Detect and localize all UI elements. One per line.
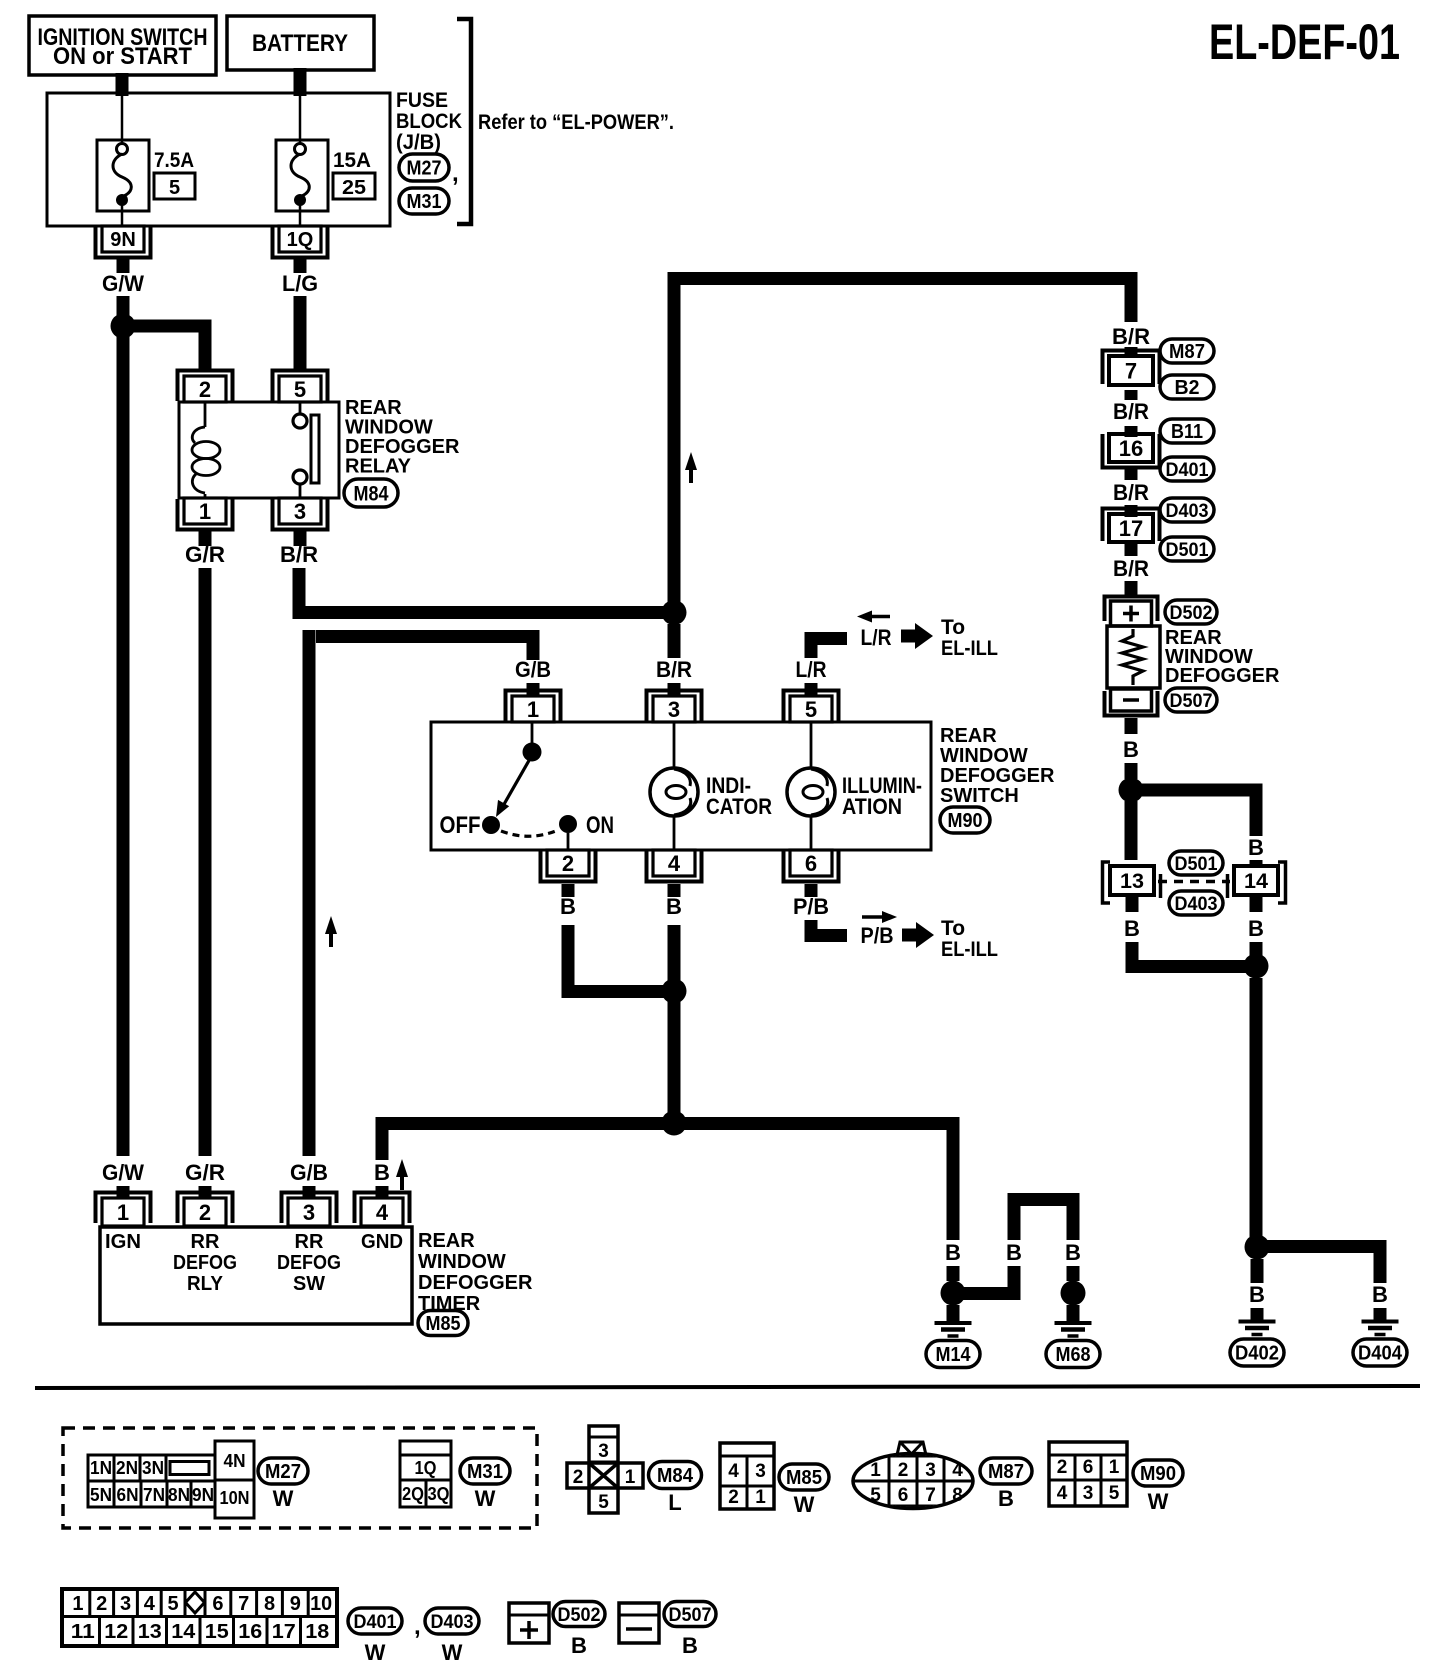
svg-text:10N: 10N (220, 1488, 250, 1508)
svg-text:6: 6 (212, 1593, 223, 1615)
svg-text:B: B (666, 894, 682, 919)
svg-text:D403: D403 (1166, 501, 1209, 522)
svg-text:DEFOG: DEFOG (173, 1252, 237, 1274)
svg-text:M87: M87 (1169, 341, 1205, 363)
svg-text:4N: 4N (224, 1451, 246, 1471)
svg-text:1: 1 (755, 1487, 766, 1508)
svg-text:B: B (560, 894, 576, 919)
svg-text:M27: M27 (265, 1461, 301, 1483)
svg-text:5N: 5N (90, 1485, 112, 1505)
svg-text:WINDOW: WINDOW (418, 1251, 506, 1273)
svg-text:BATTERY: BATTERY (252, 30, 348, 57)
svg-text:SW: SW (293, 1273, 325, 1295)
svg-text:M27: M27 (407, 158, 442, 180)
svg-text:1: 1 (625, 1467, 636, 1488)
svg-text:To: To (941, 616, 965, 639)
svg-text:ON or START: ON or START (53, 43, 192, 70)
svg-text:W: W (475, 1486, 496, 1511)
svg-text:M87: M87 (988, 1461, 1024, 1483)
svg-text:5: 5 (598, 1492, 609, 1513)
svg-text:EL-ILL: EL-ILL (941, 637, 998, 660)
svg-text:W: W (1148, 1489, 1169, 1514)
svg-text:4: 4 (952, 1460, 963, 1481)
svg-text:B2: B2 (1175, 377, 1200, 399)
svg-text:15: 15 (205, 1621, 229, 1643)
svg-text:FUSE: FUSE (396, 89, 448, 112)
svg-text:(J/B): (J/B) (396, 131, 441, 154)
svg-text:L/G: L/G (282, 271, 318, 296)
svg-text:M14: M14 (936, 1344, 972, 1366)
svg-text:G/B: G/B (290, 1160, 328, 1185)
svg-text:WINDOW: WINDOW (940, 745, 1028, 767)
svg-text:2: 2 (728, 1487, 739, 1508)
svg-text:11: 11 (71, 1621, 95, 1643)
svg-text:ATION: ATION (842, 794, 902, 819)
svg-text:4: 4 (668, 851, 681, 876)
svg-text:SWITCH: SWITCH (940, 785, 1019, 807)
svg-text:1: 1 (870, 1460, 881, 1481)
svg-text:M85: M85 (426, 1313, 461, 1335)
svg-text:3: 3 (668, 697, 680, 722)
svg-text:16: 16 (1119, 436, 1143, 461)
svg-text:25: 25 (342, 177, 366, 199)
svg-text:To: To (941, 917, 965, 940)
svg-text:5: 5 (169, 177, 180, 199)
svg-text:1: 1 (1109, 1457, 1120, 1478)
svg-text:5: 5 (294, 377, 306, 402)
svg-text:D402: D402 (1235, 1343, 1279, 1365)
svg-text:RR: RR (191, 1231, 220, 1253)
svg-text:3: 3 (294, 499, 306, 524)
svg-text:B: B (1124, 916, 1140, 941)
svg-text:4: 4 (1057, 1483, 1068, 1504)
svg-text:1: 1 (72, 1593, 83, 1615)
svg-text:3: 3 (598, 1441, 609, 1462)
svg-text:RELAY: RELAY (345, 456, 412, 478)
svg-text:1Q: 1Q (415, 1458, 437, 1478)
svg-text:ON: ON (586, 812, 614, 839)
svg-text:B: B (1065, 1240, 1081, 1265)
svg-text:2: 2 (562, 851, 574, 876)
svg-text:G/R: G/R (185, 1160, 225, 1185)
svg-text:3N: 3N (142, 1458, 164, 1478)
svg-text:9N: 9N (192, 1485, 214, 1505)
svg-text:B: B (998, 1486, 1014, 1511)
svg-text:DEFOGGER: DEFOGGER (418, 1272, 533, 1294)
svg-text:2N: 2N (116, 1458, 138, 1478)
svg-text:,: , (452, 160, 459, 187)
svg-text:Refer to “EL-POWER”.: Refer to “EL-POWER”. (478, 111, 674, 134)
svg-text:W: W (794, 1492, 815, 1517)
svg-text:G/W: G/W (102, 271, 144, 296)
svg-text:12: 12 (104, 1621, 128, 1643)
svg-text:17: 17 (1119, 516, 1143, 541)
svg-text:B: B (945, 1240, 961, 1265)
svg-text:16: 16 (238, 1621, 262, 1643)
svg-text:M90: M90 (948, 810, 983, 832)
svg-text:D502: D502 (558, 1605, 601, 1626)
svg-text:M68: M68 (1056, 1344, 1091, 1366)
svg-text:G/B: G/B (515, 657, 551, 682)
svg-text:G/R: G/R (185, 542, 225, 567)
svg-text:G/W: G/W (102, 1160, 144, 1185)
svg-text:10: 10 (310, 1593, 332, 1615)
svg-text:9: 9 (290, 1593, 301, 1615)
svg-text:14: 14 (1244, 870, 1268, 893)
svg-text:8N: 8N (168, 1485, 190, 1505)
svg-text:D502: D502 (1170, 603, 1213, 624)
svg-text:L/R: L/R (861, 625, 892, 650)
svg-text:4: 4 (144, 1593, 156, 1615)
svg-text:3: 3 (1083, 1483, 1094, 1504)
svg-text:6: 6 (1083, 1457, 1094, 1478)
svg-text:B11: B11 (1171, 421, 1203, 443)
svg-text:M84: M84 (354, 483, 389, 506)
svg-text:7.5A: 7.5A (154, 149, 194, 172)
svg-text:6: 6 (805, 851, 817, 876)
svg-text:7: 7 (238, 1593, 249, 1615)
svg-text:L: L (668, 1490, 681, 1515)
svg-text:D501: D501 (1166, 540, 1209, 561)
svg-text:5: 5 (1109, 1483, 1120, 1504)
svg-text:W: W (442, 1640, 463, 1665)
svg-text:IGN: IGN (105, 1231, 141, 1253)
svg-text:DEFOGGER: DEFOGGER (940, 765, 1055, 787)
svg-text:M90: M90 (1140, 1463, 1176, 1485)
svg-text:13: 13 (138, 1621, 162, 1643)
svg-text:D507: D507 (669, 1605, 712, 1626)
svg-text:1: 1 (527, 697, 539, 722)
svg-text:2: 2 (573, 1467, 584, 1488)
svg-text:18: 18 (305, 1621, 329, 1643)
svg-text:3: 3 (303, 1200, 315, 1225)
svg-text:8: 8 (952, 1485, 963, 1506)
svg-text:3: 3 (120, 1593, 131, 1615)
svg-text:CATOR: CATOR (706, 794, 772, 819)
svg-text:B/R: B/R (1113, 399, 1149, 424)
svg-text:P/B: P/B (793, 894, 829, 919)
svg-text:D403: D403 (1175, 894, 1218, 915)
svg-text:B: B (1123, 737, 1139, 762)
svg-text:5: 5 (805, 697, 817, 722)
svg-text:5: 5 (168, 1593, 179, 1615)
svg-text:BLOCK: BLOCK (396, 110, 462, 133)
svg-text:EL-DEF-01: EL-DEF-01 (1209, 14, 1400, 70)
svg-text:B: B (1006, 1240, 1022, 1265)
svg-text:3: 3 (925, 1460, 936, 1481)
svg-text:DEFOGGER: DEFOGGER (1165, 665, 1280, 687)
svg-text:D401: D401 (1166, 460, 1209, 481)
svg-text:B/R: B/R (1113, 556, 1149, 581)
svg-text:M84: M84 (657, 1465, 694, 1487)
svg-text:3Q: 3Q (428, 1484, 450, 1504)
svg-text:14: 14 (171, 1621, 196, 1643)
svg-text:D403: D403 (431, 1612, 474, 1633)
svg-text:REAR: REAR (940, 725, 997, 747)
svg-text:D501: D501 (1175, 854, 1218, 875)
svg-text:B/R: B/R (656, 657, 692, 682)
svg-text:P/B: P/B (861, 923, 894, 948)
svg-text:1Q: 1Q (287, 229, 314, 251)
svg-text:13: 13 (1120, 870, 1144, 893)
svg-text:RLY: RLY (187, 1273, 224, 1295)
svg-text:M31: M31 (467, 1461, 503, 1483)
svg-text:D404: D404 (1358, 1343, 1403, 1365)
svg-text:D401: D401 (354, 1612, 397, 1633)
svg-text:17: 17 (272, 1621, 296, 1643)
svg-text:W: W (365, 1640, 386, 1665)
svg-text:DEFOG: DEFOG (277, 1252, 341, 1274)
svg-text:3: 3 (755, 1461, 766, 1482)
svg-text:L/R: L/R (796, 657, 827, 682)
svg-text:15A: 15A (333, 149, 371, 172)
svg-text:2: 2 (1057, 1457, 1068, 1478)
svg-text:RR: RR (295, 1231, 324, 1253)
svg-text:4: 4 (728, 1461, 739, 1482)
svg-text:2Q: 2Q (402, 1484, 424, 1504)
svg-text:7: 7 (925, 1485, 936, 1506)
svg-text:B: B (374, 1160, 390, 1185)
svg-text:2: 2 (898, 1460, 909, 1481)
svg-text:,: , (414, 1613, 421, 1640)
svg-text:M85: M85 (786, 1467, 822, 1489)
svg-text:1: 1 (199, 499, 211, 524)
svg-text:REAR: REAR (418, 1230, 475, 1252)
svg-text:7: 7 (1125, 358, 1137, 383)
svg-text:6: 6 (898, 1485, 909, 1506)
svg-text:B/R: B/R (1112, 324, 1150, 349)
svg-text:D507: D507 (1170, 691, 1213, 712)
svg-text:9N: 9N (110, 229, 136, 251)
svg-text:M31: M31 (407, 191, 442, 213)
svg-text:2: 2 (199, 377, 211, 402)
svg-text:EL-ILL: EL-ILL (941, 938, 998, 961)
svg-text:OFF: OFF (440, 812, 481, 839)
svg-text:B/R: B/R (1113, 480, 1149, 505)
svg-text:4: 4 (376, 1200, 389, 1225)
svg-text:2: 2 (96, 1593, 107, 1615)
svg-text:B: B (1372, 1282, 1388, 1307)
svg-text:1: 1 (117, 1200, 129, 1225)
svg-text:B: B (1248, 835, 1264, 860)
svg-text:1N: 1N (90, 1458, 112, 1478)
svg-text:W: W (273, 1486, 294, 1511)
svg-text:B: B (1248, 916, 1264, 941)
svg-text:2: 2 (199, 1200, 211, 1225)
svg-text:GND: GND (361, 1231, 403, 1253)
svg-text:6N: 6N (117, 1485, 139, 1505)
svg-text:B: B (571, 1633, 587, 1658)
svg-text:B: B (682, 1633, 698, 1658)
svg-text:7N: 7N (143, 1485, 165, 1505)
svg-text:5: 5 (870, 1485, 881, 1506)
svg-text:B: B (1249, 1282, 1265, 1307)
svg-text:8: 8 (264, 1593, 275, 1615)
svg-text:B/R: B/R (280, 542, 318, 567)
